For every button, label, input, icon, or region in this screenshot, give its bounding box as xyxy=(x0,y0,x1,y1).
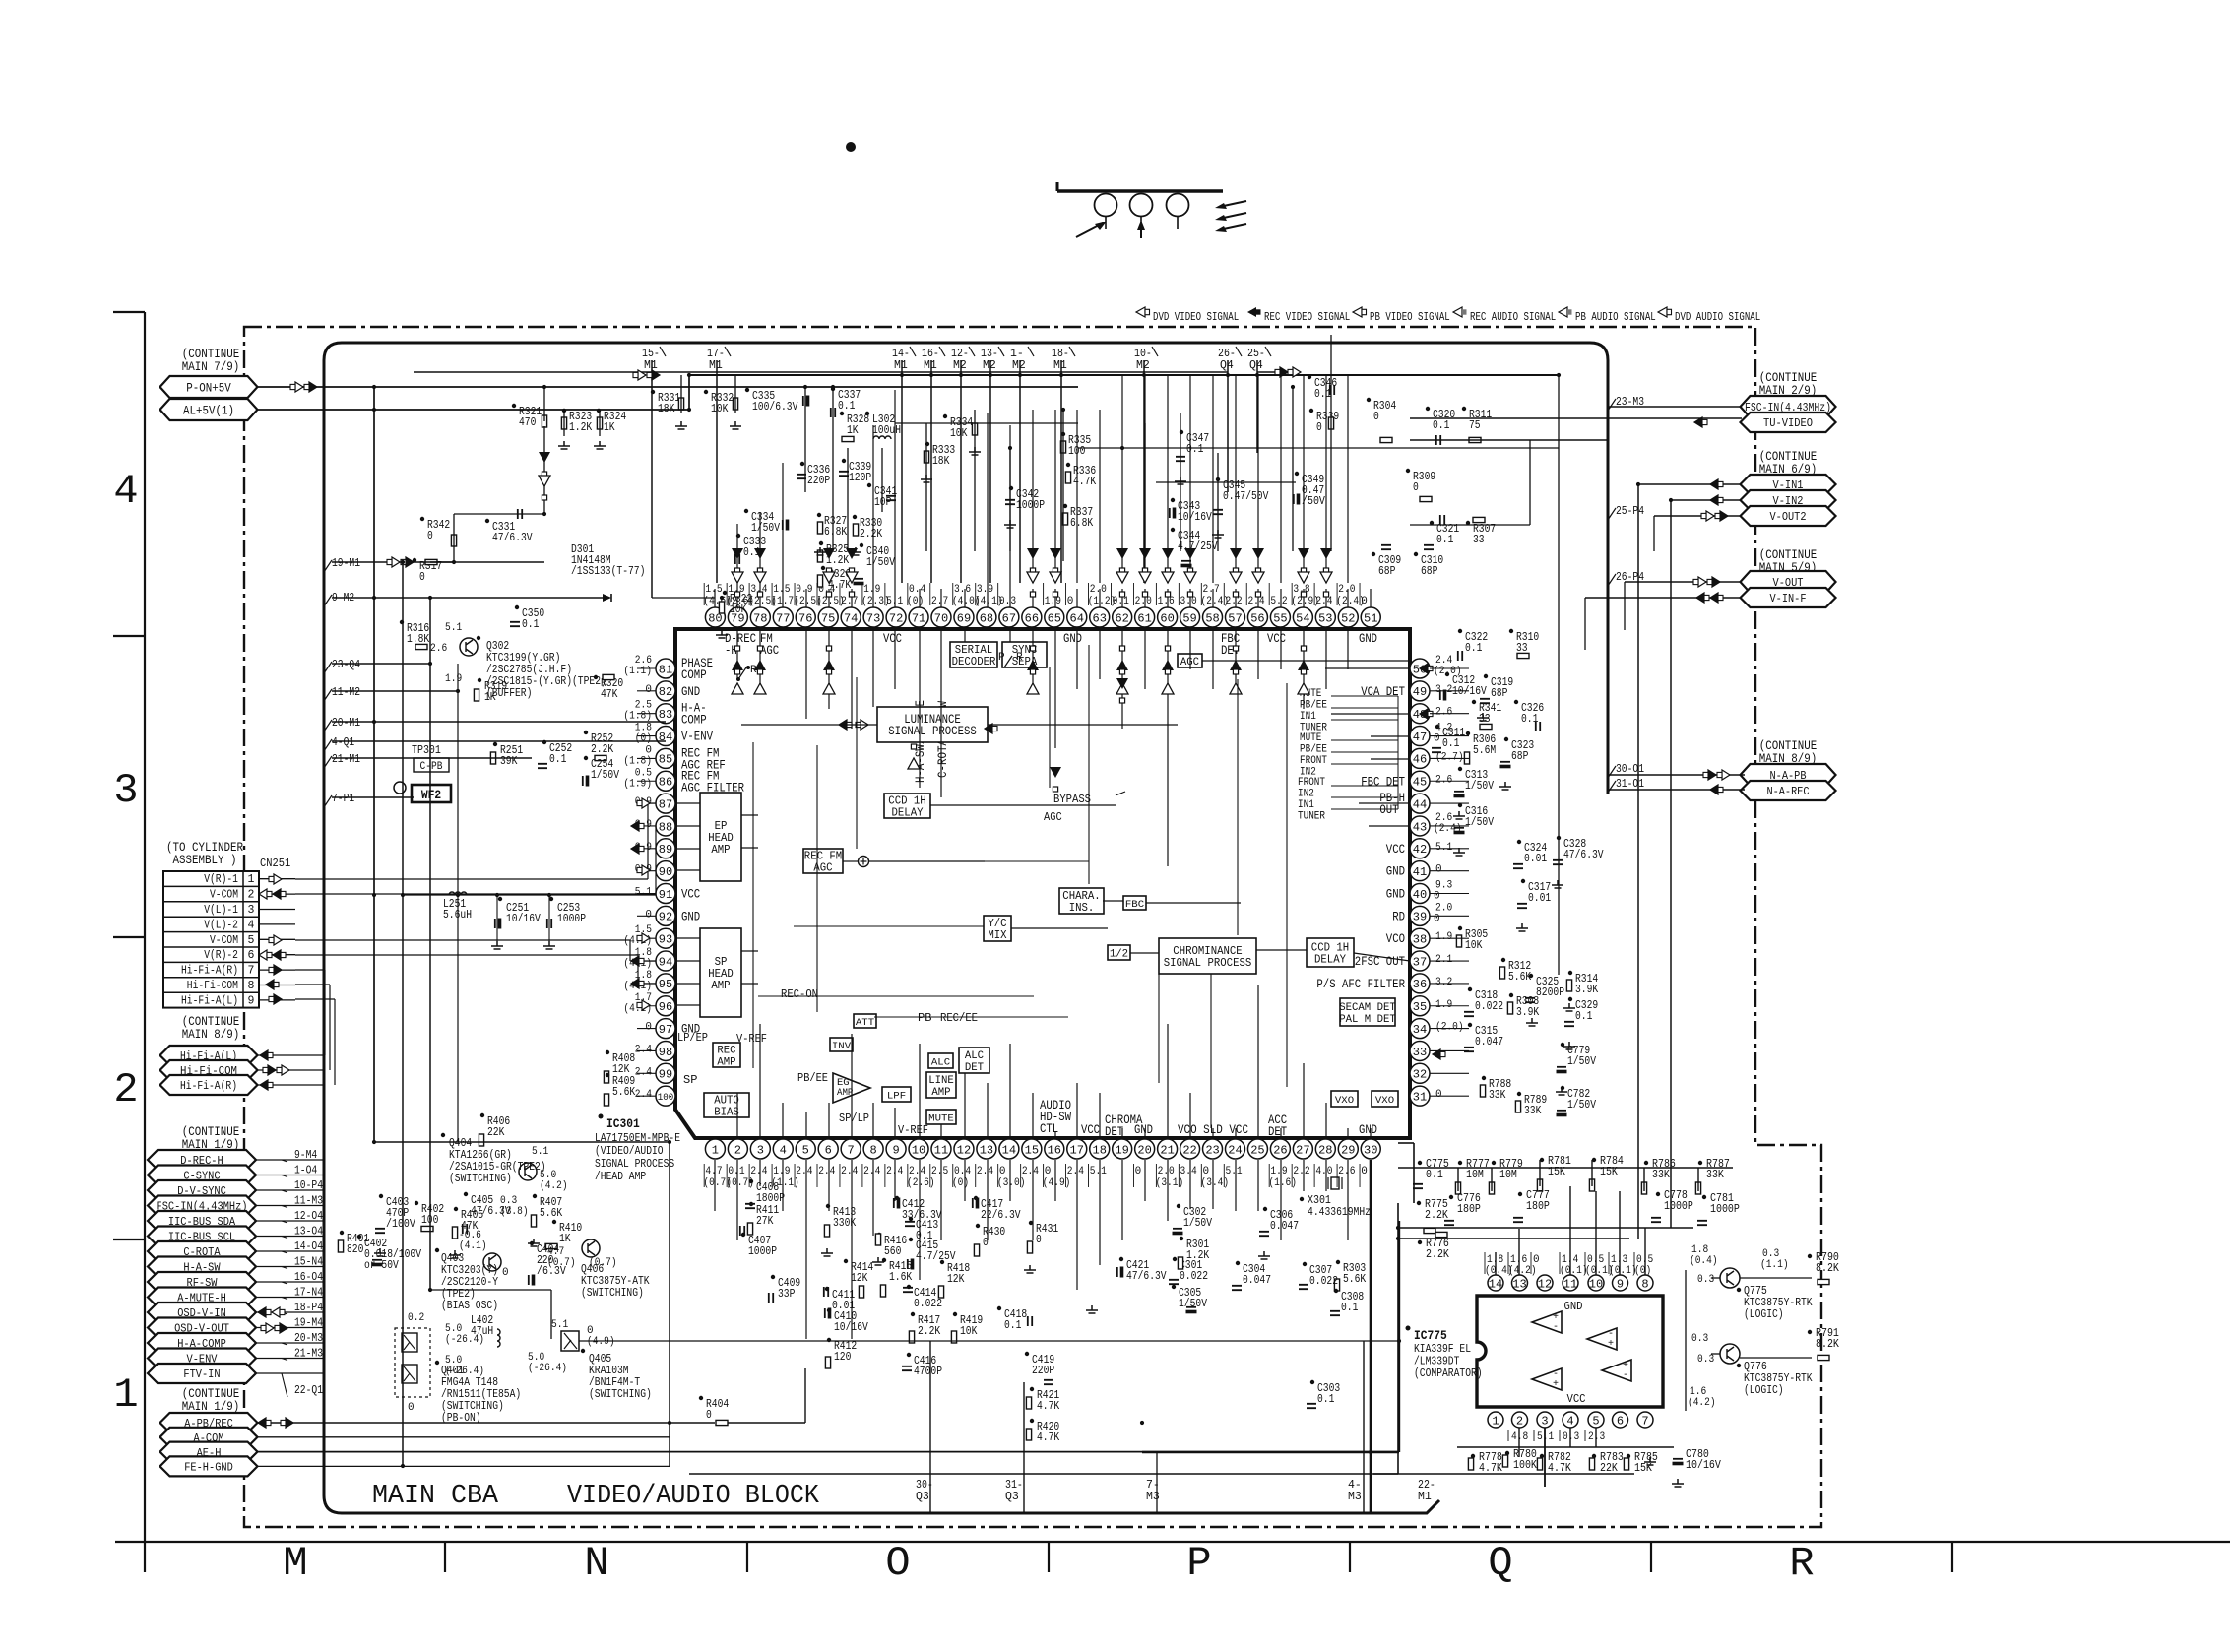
svg-text:2.4: 2.4 xyxy=(841,1166,859,1177)
IC775 top pins xyxy=(1488,1275,1653,1291)
svg-text:14: 14 xyxy=(1489,1277,1502,1291)
svg-text:25: 25 xyxy=(1250,1143,1264,1157)
connector flag FE-H-GND xyxy=(160,1456,258,1476)
block MUTE xyxy=(926,1110,956,1125)
svg-text:90: 90 xyxy=(659,865,672,879)
svg-text:73: 73 xyxy=(866,611,880,625)
svg-text:5.6M: 5.6M xyxy=(1473,744,1496,757)
svg-text:2: 2 xyxy=(734,1143,741,1157)
IC775 top voltages xyxy=(1485,1252,1653,1277)
svg-text:12: 12 xyxy=(957,1143,971,1157)
resistor R404 xyxy=(699,1396,729,1426)
svg-text:3.9K: 3.9K xyxy=(1516,1006,1539,1019)
svg-text:22: 22 xyxy=(1182,1143,1196,1157)
svg-text:0: 0 xyxy=(1361,1166,1368,1177)
svg-text:2: 2 xyxy=(113,1066,138,1113)
continue label MAIN 8/9 xyxy=(182,1015,240,1042)
svg-text:32: 32 xyxy=(1413,1068,1427,1082)
svg-text:12K: 12K xyxy=(851,1272,867,1285)
svg-text:VCC: VCC xyxy=(883,632,902,646)
connector flag V-ENV xyxy=(148,1349,256,1368)
svg-text:REC: REC xyxy=(717,1046,736,1057)
svg-text:Q3: Q3 xyxy=(916,1491,929,1503)
voltage 4.7/0.7 xyxy=(547,1246,576,1269)
svg-text:4: 4 xyxy=(780,1143,787,1157)
block EP HEAD AMP xyxy=(700,793,741,881)
svg-text:(BIAS OSC): (BIAS OSC) xyxy=(441,1300,498,1312)
svg-text:REC/EE: REC/EE xyxy=(940,1011,978,1025)
svg-text:/LM339DT: /LM339DT xyxy=(1414,1356,1459,1368)
svg-text:AMP: AMP xyxy=(931,1087,951,1099)
svg-text:2.6: 2.6 xyxy=(1435,707,1452,719)
svg-text:70: 70 xyxy=(934,611,948,625)
svg-text:(LOGIC): (LOGIC) xyxy=(1744,1384,1784,1397)
svg-text:17: 17 xyxy=(1070,1143,1084,1157)
capacitor C328 xyxy=(1553,836,1604,864)
svg-text:4.7: 4.7 xyxy=(705,1166,722,1177)
svg-text:P: P xyxy=(998,652,1005,664)
svg-text:9: 9 xyxy=(248,994,255,1007)
block LPF xyxy=(882,1087,911,1103)
op-amp U1b xyxy=(1587,1328,1617,1350)
pin ref 18-P4 xyxy=(282,1302,323,1314)
svg-text:5.1: 5.1 xyxy=(1435,842,1453,854)
resistor R783 xyxy=(1589,1451,1624,1475)
capacitor C350 xyxy=(510,605,544,631)
svg-text:1.9: 1.9 xyxy=(1045,596,1061,607)
svg-text:0: 0 xyxy=(1067,596,1074,607)
svg-text:1: 1 xyxy=(1492,1414,1499,1428)
resistor R335 xyxy=(1060,432,1091,458)
svg-text:0: 0 xyxy=(1135,1166,1142,1177)
capacitor C320 xyxy=(1426,407,1455,445)
svg-text:9: 9 xyxy=(1617,1277,1624,1291)
connector flag FTV-IN xyxy=(148,1364,256,1383)
svg-text:0: 0 xyxy=(1036,1234,1042,1246)
connector flag H-A-COMP xyxy=(148,1333,256,1353)
svg-text:3.0: 3.0 xyxy=(1180,596,1197,607)
capacitor C331 xyxy=(485,509,533,544)
svg-text:0: 0 xyxy=(408,1402,415,1414)
svg-text:2: 2 xyxy=(1516,1414,1523,1428)
svg-text:(4.2): (4.2) xyxy=(540,1180,568,1192)
svg-text:62: 62 xyxy=(1115,611,1128,625)
edge ref 26-Q4 xyxy=(1218,347,1242,372)
svg-text:64: 64 xyxy=(1070,611,1084,625)
transistor Q401 label xyxy=(435,1361,521,1425)
resistor R791 xyxy=(1808,1327,1839,1361)
svg-text:(CONTINUE: (CONTINUE xyxy=(1759,548,1818,562)
svg-text:7: 7 xyxy=(1641,1414,1648,1428)
svg-text:+: + xyxy=(1553,1379,1559,1390)
svg-text:ALC: ALC xyxy=(931,1057,950,1069)
svg-text:V-COM: V-COM xyxy=(210,889,238,902)
capacitor C253 xyxy=(547,897,586,928)
svg-text:120P: 120P xyxy=(849,472,871,484)
svg-text:16: 16 xyxy=(1048,1143,1061,1157)
svg-text:GND: GND xyxy=(1359,632,1377,646)
svg-text:M1: M1 xyxy=(709,359,723,372)
svg-text:1/50V: 1/50V xyxy=(866,556,895,569)
svg-text:0: 0 xyxy=(502,1267,509,1279)
ground symbols xyxy=(374,421,1684,1487)
svg-text:0.047: 0.047 xyxy=(1475,1036,1503,1048)
connector flag C-SYNC xyxy=(148,1166,256,1185)
svg-text:20: 20 xyxy=(1137,1143,1151,1157)
capacitor C315 xyxy=(1464,1023,1503,1051)
svg-text:4.433619MHz: 4.433619MHz xyxy=(1308,1206,1371,1219)
pin ref 17-N4 xyxy=(282,1287,323,1300)
edge ref 7-P1 xyxy=(324,793,354,807)
resistor R301 xyxy=(1178,1237,1209,1269)
capacitor C412 xyxy=(894,1196,942,1222)
svg-text:(4.9): (4.9) xyxy=(1043,1177,1071,1189)
svg-text:37: 37 xyxy=(1413,955,1427,969)
connector flag RF-SW xyxy=(148,1272,256,1292)
continue label MAIN 2/9 xyxy=(1759,371,1818,398)
svg-text:82: 82 xyxy=(659,685,672,699)
svg-text:4.7K: 4.7K xyxy=(1479,1462,1502,1475)
svg-text:10M: 10M xyxy=(1499,1169,1517,1181)
svg-text:0.1: 0.1 xyxy=(1314,388,1331,401)
svg-text:5.1: 5.1 xyxy=(551,1319,569,1331)
svg-text:78: 78 xyxy=(753,611,767,625)
svg-text:O: O xyxy=(885,1540,910,1587)
connector flag V-IN-F xyxy=(1741,588,1836,607)
svg-text:95: 95 xyxy=(659,978,672,991)
svg-text:51: 51 xyxy=(1364,611,1377,625)
svg-text:10/16V: 10/16V xyxy=(506,913,541,925)
svg-text:52: 52 xyxy=(1341,611,1355,625)
svg-text:7-P1: 7-P1 xyxy=(332,793,354,805)
svg-text:99: 99 xyxy=(659,1068,672,1082)
svg-text:43: 43 xyxy=(1413,820,1427,834)
svg-text:-: - xyxy=(1623,1370,1628,1381)
grid row label 4 xyxy=(113,468,138,515)
svg-text:470: 470 xyxy=(519,416,536,429)
svg-text:4.7K: 4.7K xyxy=(828,579,851,592)
capacitor C311 xyxy=(1432,725,1465,752)
svg-text:1000P: 1000P xyxy=(1710,1203,1740,1216)
svg-text:2.4: 2.4 xyxy=(977,1166,994,1177)
svg-text:(4.2): (4.2) xyxy=(1688,1397,1716,1409)
resistor R788 xyxy=(1480,1076,1511,1102)
resistor R310 xyxy=(1509,629,1539,659)
svg-text:LINE: LINE xyxy=(928,1075,954,1087)
connector flag AL+5V(1) xyxy=(160,399,258,420)
resistor R327 xyxy=(817,513,847,539)
svg-text:SIGNAL PROCESS: SIGNAL PROCESS xyxy=(888,725,977,738)
transistor Q776 xyxy=(1720,1344,1813,1397)
svg-text:0.2: 0.2 xyxy=(408,1312,424,1324)
svg-text:Q3: Q3 xyxy=(1005,1491,1019,1503)
svg-text:220P: 220P xyxy=(807,475,830,487)
svg-text:0.1: 0.1 xyxy=(549,753,566,766)
svg-text:AMP: AMP xyxy=(711,844,730,857)
resistor R421 xyxy=(1026,1387,1059,1413)
svg-text:2.0: 2.0 xyxy=(1158,1166,1175,1177)
edge ref 14-M1 xyxy=(892,347,916,372)
svg-text:2.4: 2.4 xyxy=(1022,1166,1040,1177)
svg-text:1.9: 1.9 xyxy=(1435,931,1452,943)
block ALC DET xyxy=(959,1048,989,1074)
svg-text:0: 0 xyxy=(1316,421,1322,434)
svg-text:13: 13 xyxy=(980,1143,993,1157)
svg-text:100/6.3V: 100/6.3V xyxy=(752,401,797,413)
svg-text:2.2: 2.2 xyxy=(1225,596,1242,607)
svg-text:P: P xyxy=(1186,1540,1211,1587)
svg-text:10K: 10K xyxy=(960,1325,977,1338)
svg-text:33K: 33K xyxy=(1652,1169,1670,1181)
svg-text:SP/LP: SP/LP xyxy=(839,1112,869,1125)
svg-text:35: 35 xyxy=(1413,1000,1427,1014)
resistor R420 xyxy=(1026,1419,1059,1444)
svg-text:18: 18 xyxy=(1093,1143,1107,1157)
connector flag A-MUTE-H xyxy=(148,1288,256,1307)
svg-text:(CONTINUE: (CONTINUE xyxy=(1759,371,1818,385)
svg-text:27K: 27K xyxy=(756,1215,773,1228)
svg-text:0.01: 0.01 xyxy=(1528,892,1551,905)
connector flag V-IN2 xyxy=(1741,490,1836,510)
svg-text:10/16V: 10/16V xyxy=(1686,1459,1721,1472)
svg-text:(SWITCHING): (SWITCHING) xyxy=(589,1388,652,1401)
svg-text:V-REF: V-REF xyxy=(736,1032,767,1046)
edge ref 21-M1 xyxy=(324,753,360,768)
continue label MAIN 8/9 right xyxy=(1759,739,1818,766)
capacitor C404 xyxy=(529,1241,566,1285)
svg-text:0.1: 0.1 xyxy=(1004,1319,1021,1332)
capacitor C337 xyxy=(831,387,861,417)
svg-text:Hi-Fi-A(R): Hi-Fi-A(R) xyxy=(181,965,238,978)
pin ref 11-M3 xyxy=(282,1195,323,1208)
svg-text:M1: M1 xyxy=(1418,1491,1432,1503)
capacitor C336 xyxy=(797,462,830,487)
svg-text:IC775: IC775 xyxy=(1414,1328,1447,1343)
capacitor C343 xyxy=(1170,498,1212,524)
svg-text:68P: 68P xyxy=(1491,687,1507,700)
IC301 left pin names xyxy=(681,657,744,1037)
block VXO B xyxy=(1372,1091,1398,1107)
resistor R412 xyxy=(825,1338,857,1368)
svg-text:P-ON+5V: P-ON+5V xyxy=(186,381,231,395)
capacitor C334 xyxy=(744,509,789,535)
connector flag D-REC-H xyxy=(148,1150,256,1170)
svg-text:(CONTINUE: (CONTINUE xyxy=(1759,739,1818,753)
svg-text:330K: 330K xyxy=(833,1217,856,1230)
svg-text:2.0: 2.0 xyxy=(1338,584,1355,596)
block FBC xyxy=(1123,896,1146,911)
capacitor C775 xyxy=(1413,1158,1449,1188)
svg-text:(1.6): (1.6) xyxy=(1268,1177,1297,1189)
svg-text:34: 34 xyxy=(1413,1023,1427,1037)
svg-text:100K: 100K xyxy=(1513,1459,1537,1472)
svg-text:56: 56 xyxy=(1250,611,1264,625)
svg-text:69: 69 xyxy=(957,611,971,625)
connector flag OSD-V-OUT xyxy=(148,1318,256,1338)
svg-text:1: 1 xyxy=(113,1371,138,1419)
svg-text:0.3: 0.3 xyxy=(999,596,1016,607)
svg-text:2.6: 2.6 xyxy=(1435,774,1452,786)
svg-text:BYPASS: BYPASS xyxy=(1053,793,1091,806)
svg-text:V-COM: V-COM xyxy=(210,934,238,947)
svg-text:46: 46 xyxy=(1413,753,1427,767)
pin ref 19-M4 xyxy=(282,1317,323,1330)
capacitor C322 xyxy=(1458,629,1488,661)
svg-text:(CONTINUE: (CONTINUE xyxy=(182,1015,240,1029)
svg-text:PB/EE: PB/EE xyxy=(797,1071,828,1085)
svg-text:29: 29 xyxy=(1341,1143,1355,1157)
svg-text:IN2: IN2 xyxy=(1298,789,1314,800)
grid row label 2 xyxy=(113,1066,138,1113)
svg-text:42: 42 xyxy=(1413,843,1427,857)
capacitor C326 xyxy=(1514,700,1544,731)
resistor R311 xyxy=(1462,407,1492,443)
capacitor C304 xyxy=(1232,1261,1271,1290)
capacitor C306 xyxy=(1259,1207,1299,1236)
IC775 reference label xyxy=(1406,1326,1483,1381)
IC775 VCC label xyxy=(1567,1393,1586,1406)
svg-text:+: + xyxy=(1608,1339,1614,1350)
capacitor C308 xyxy=(1330,1289,1364,1315)
capacitor C318 xyxy=(1464,987,1503,1016)
svg-text:GND: GND xyxy=(1386,888,1405,902)
svg-text:20-M1: 20-M1 xyxy=(332,717,360,730)
resistor R319 xyxy=(474,678,507,704)
svg-text:0.1: 0.1 xyxy=(1433,419,1449,432)
svg-text:VCC: VCC xyxy=(681,888,700,902)
svg-text:(-26.4): (-26.4) xyxy=(445,1334,484,1346)
svg-text:0.1: 0.1 xyxy=(1341,1302,1358,1314)
svg-text:VIDEO/AUDIO BLOCK: VIDEO/AUDIO BLOCK xyxy=(567,1482,820,1511)
svg-text:38: 38 xyxy=(1413,933,1427,947)
svg-text:/50V: /50V xyxy=(1302,495,1325,508)
svg-text:63: 63 xyxy=(1093,611,1107,625)
edge ref 26-P4 xyxy=(1608,571,1644,586)
connector flag A-COM xyxy=(160,1428,258,1447)
svg-text:5.1: 5.1 xyxy=(445,622,463,634)
connector flag V-OUT2 xyxy=(1741,506,1836,526)
svg-text:1K: 1K xyxy=(604,421,615,434)
resistor R406 xyxy=(478,1113,510,1146)
svg-text:10/16V: 10/16V xyxy=(1452,685,1487,698)
op-amp/IC IC301 body xyxy=(675,629,1410,1138)
capacitor C408 xyxy=(745,1179,785,1208)
resistor R333 xyxy=(924,442,955,468)
resistor R312 xyxy=(1499,958,1531,984)
IC301 top pin voltages xyxy=(703,583,1367,607)
svg-text:(SWITCHING): (SWITCHING) xyxy=(449,1173,512,1185)
resistor R411 xyxy=(747,1202,779,1235)
svg-text:FBC DET: FBC DET xyxy=(1361,775,1405,789)
svg-text:SIGNAL PROCESS: SIGNAL PROCESS xyxy=(1164,956,1252,970)
transistor Q406 xyxy=(581,1239,650,1300)
connector flag Hi-Fi-A(L) xyxy=(160,1046,258,1065)
svg-text:TP301: TP301 xyxy=(412,744,441,757)
svg-text:M1: M1 xyxy=(894,359,908,372)
svg-text:3.4: 3.4 xyxy=(1180,1166,1198,1177)
wire junction dots xyxy=(372,373,1673,1468)
edge ref 31-O1 xyxy=(1608,778,1644,793)
svg-text:30-O1: 30-O1 xyxy=(1616,763,1644,776)
svg-text:0.3: 0.3 xyxy=(1691,1333,1708,1345)
continue label MAIN 6/9 xyxy=(1759,450,1818,477)
svg-text:2.7: 2.7 xyxy=(931,596,948,607)
capacitor C310 xyxy=(1414,545,1443,578)
svg-text:M3: M3 xyxy=(1146,1491,1160,1503)
svg-text:(3.1): (3.1) xyxy=(1156,1177,1184,1189)
svg-text:TUNER: TUNER xyxy=(1298,811,1325,823)
svg-text:Q4: Q4 xyxy=(1220,359,1234,372)
svg-text:53: 53 xyxy=(1318,611,1332,625)
svg-text:0: 0 xyxy=(1434,891,1440,903)
svg-text:47: 47 xyxy=(1413,731,1427,744)
resistor R326 xyxy=(817,566,851,592)
svg-text:4.0: 4.0 xyxy=(1315,1166,1332,1177)
capacitor C307 xyxy=(1299,1262,1338,1289)
svg-text:22/6.3V: 22/6.3V xyxy=(981,1209,1021,1222)
svg-text:6.8K: 6.8K xyxy=(1070,517,1093,530)
capacitor C345 xyxy=(1213,477,1268,514)
svg-text:0.4: 0.4 xyxy=(909,584,926,596)
edge ref 4-M3 xyxy=(1348,1479,1362,1503)
capacitor C341 xyxy=(867,483,897,509)
resistor R778 xyxy=(1468,1451,1502,1475)
svg-text:0.4: 0.4 xyxy=(954,1166,972,1177)
transistor Q405 xyxy=(551,1319,652,1401)
extra bus wires xyxy=(1142,1160,1399,1513)
svg-text:0: 0 xyxy=(645,684,652,696)
svg-text:V(R)-1: V(R)-1 xyxy=(204,873,238,886)
svg-text:1.9: 1.9 xyxy=(863,584,880,596)
svg-text:(1.1): (1.1) xyxy=(623,666,652,677)
svg-text:2.4: 2.4 xyxy=(796,1166,813,1177)
svg-text:3.2: 3.2 xyxy=(1435,977,1452,988)
svg-text:R: R xyxy=(1789,1540,1814,1587)
svg-text:(CONTINUE: (CONTINUE xyxy=(182,348,240,361)
svg-text:BIAS: BIAS xyxy=(714,1107,739,1119)
capacitor C777 xyxy=(1513,1189,1550,1222)
capacitor C344 xyxy=(1171,528,1218,567)
svg-text:5.6K: 5.6K xyxy=(1343,1273,1366,1286)
svg-text:1.2K: 1.2K xyxy=(1186,1249,1209,1262)
svg-text:1000P: 1000P xyxy=(1664,1200,1693,1213)
svg-text:27: 27 xyxy=(1296,1143,1309,1157)
svg-text:89: 89 xyxy=(659,843,672,857)
svg-text:M1: M1 xyxy=(924,359,937,372)
svg-text:GND: GND xyxy=(1134,1123,1153,1137)
svg-text:180P: 180P xyxy=(1457,1203,1481,1216)
svg-text:5.1: 5.1 xyxy=(635,887,653,899)
connector flag IIC-BUS SCL xyxy=(148,1227,256,1246)
svg-text:(3.4): (3.4) xyxy=(1201,1177,1230,1189)
svg-text:0: 0 xyxy=(427,530,433,542)
svg-text:1.9: 1.9 xyxy=(445,673,462,685)
svg-text:(0.4): (0.4) xyxy=(1690,1255,1718,1267)
svg-text:3: 3 xyxy=(757,1143,764,1157)
capacitor C333 xyxy=(735,534,766,564)
capacitor C321 xyxy=(1430,515,1459,546)
svg-text:1.9: 1.9 xyxy=(1435,999,1452,1011)
svg-text:6: 6 xyxy=(1617,1414,1624,1428)
svg-text:5.2: 5.2 xyxy=(1270,596,1287,607)
svg-text:560: 560 xyxy=(884,1245,901,1258)
svg-text:(1.9): (1.9) xyxy=(623,778,652,790)
resistor R308 xyxy=(1507,993,1539,1019)
svg-text:0.047: 0.047 xyxy=(1243,1274,1271,1287)
capacitor C415 xyxy=(908,1238,956,1269)
capacitor C305 xyxy=(1172,1285,1207,1313)
edge ref 22-M1 xyxy=(1418,1479,1435,1503)
